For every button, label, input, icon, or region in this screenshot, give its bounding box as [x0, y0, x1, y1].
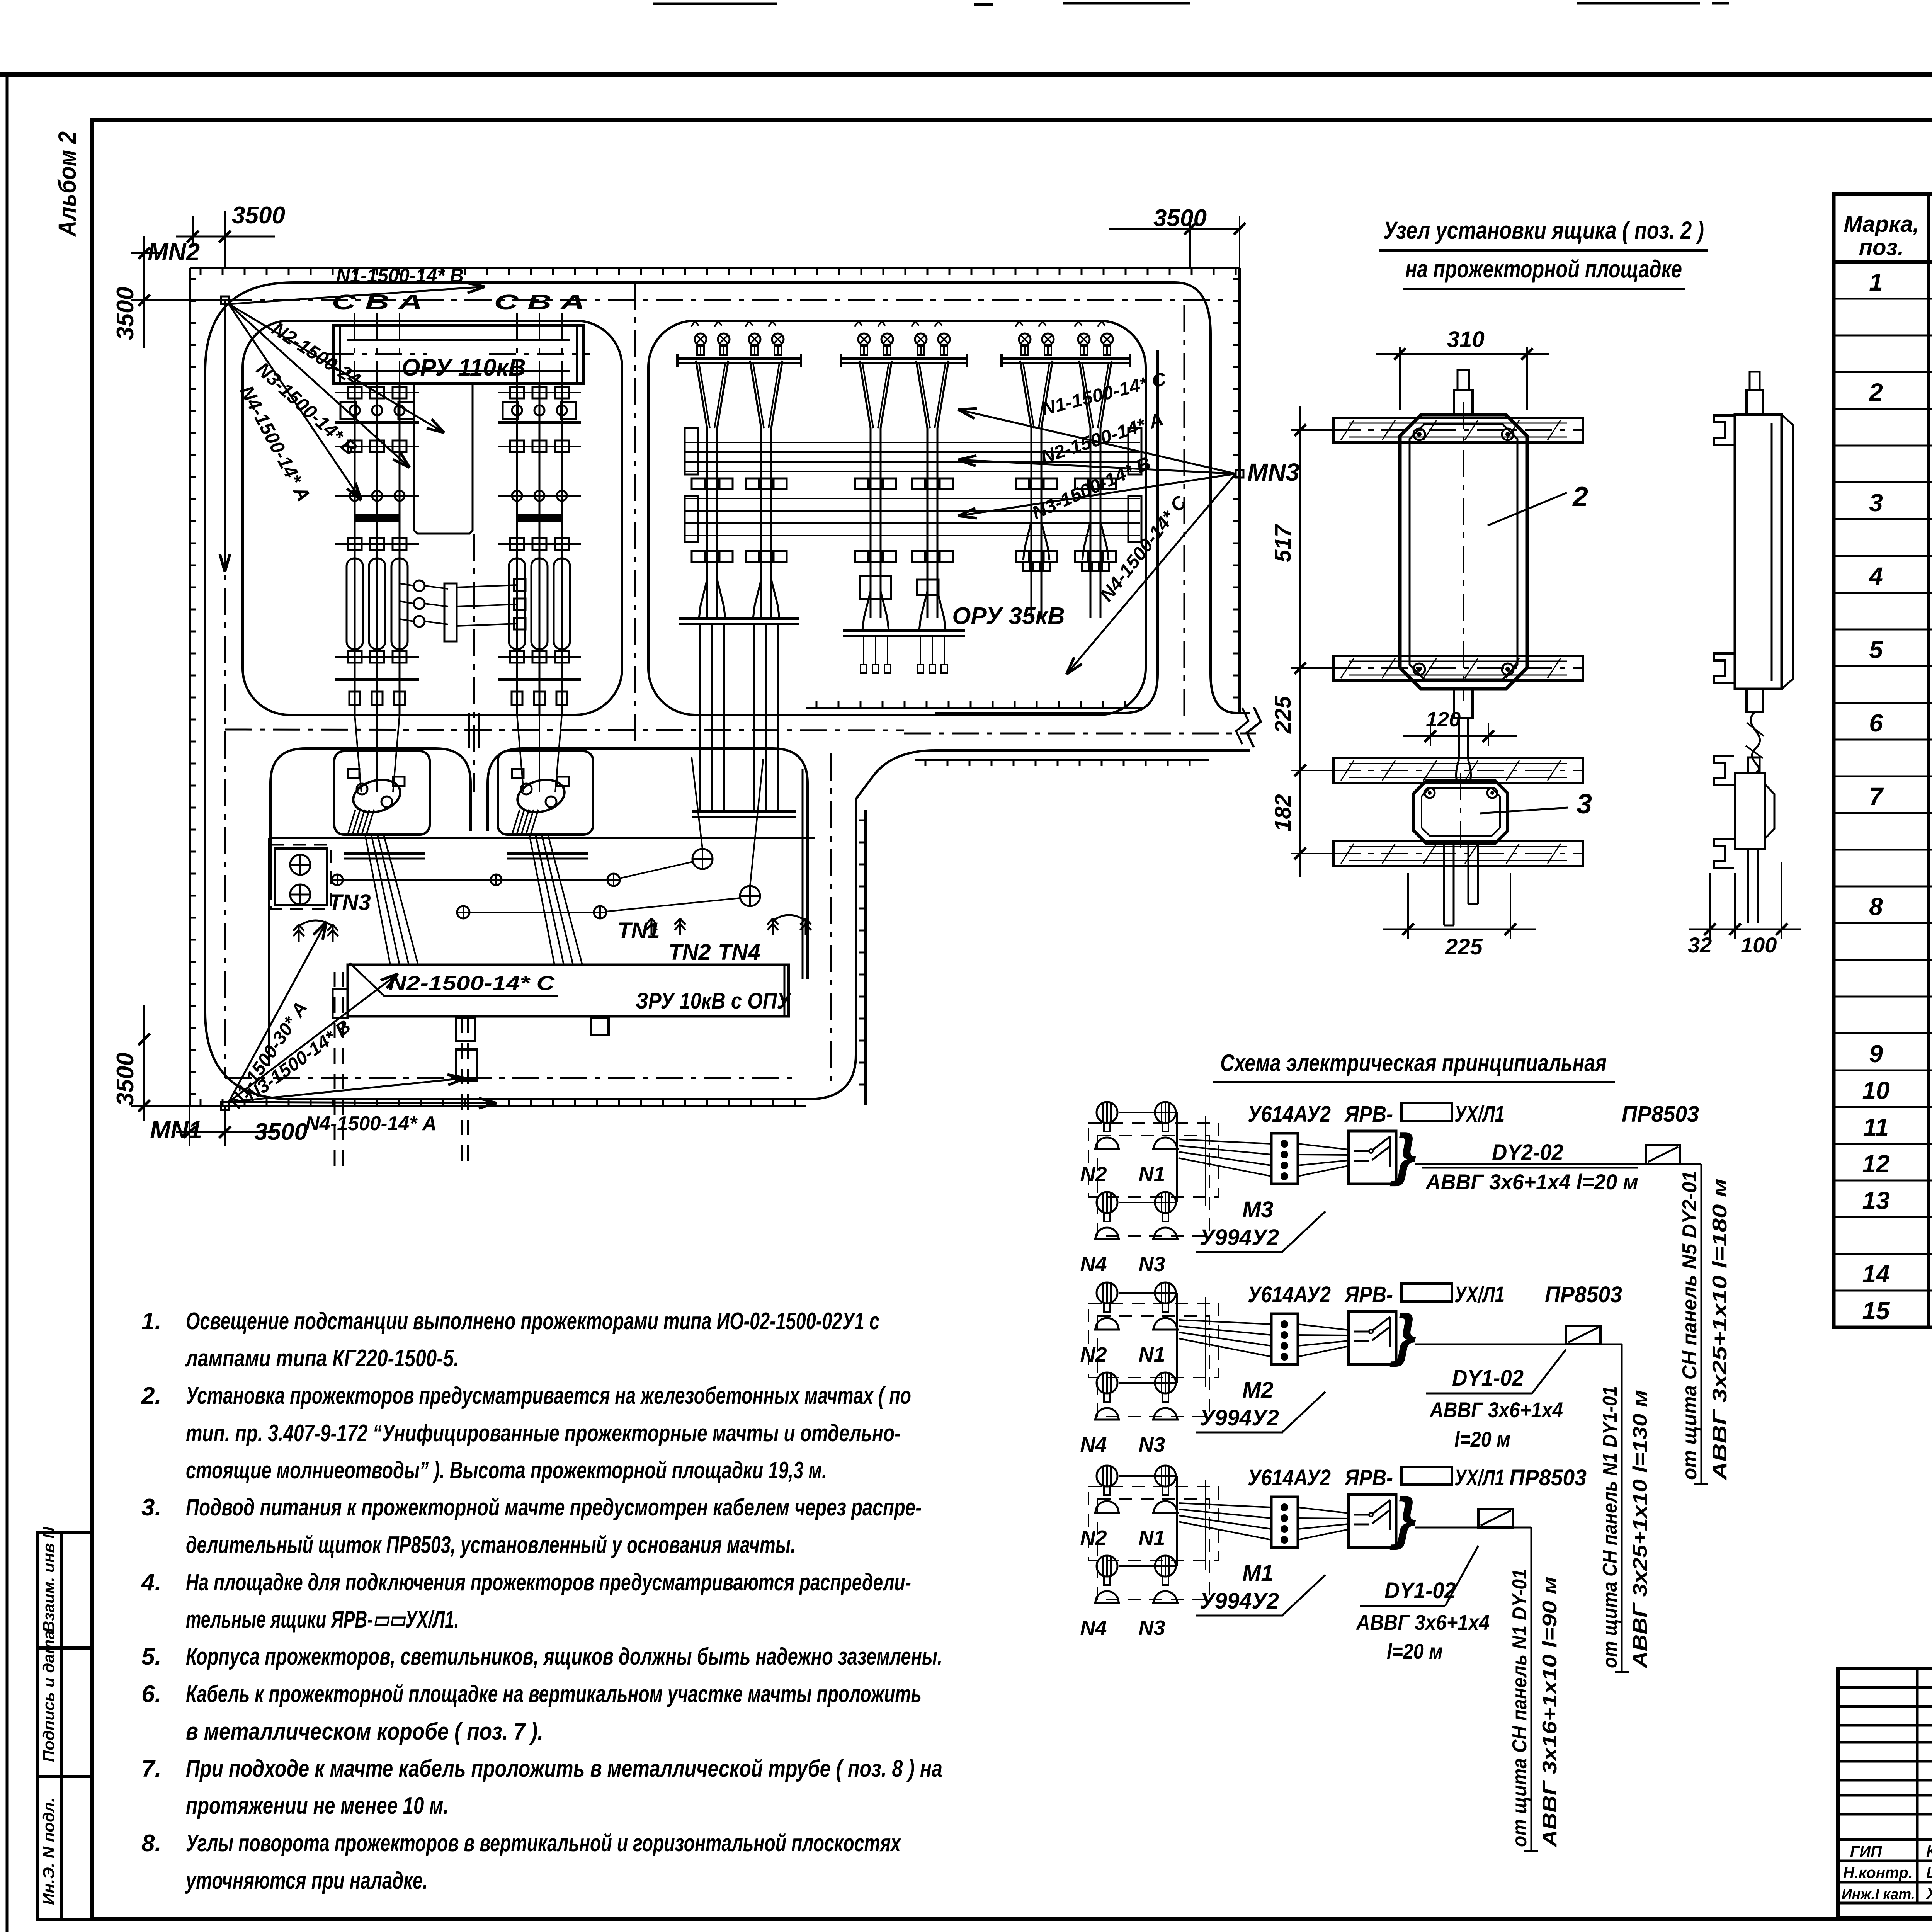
svg-text:3500: 3500 — [112, 287, 139, 340]
svg-text:l=20 м: l=20 м — [1387, 1639, 1443, 1663]
svg-text:3500: 3500 — [1153, 205, 1207, 231]
svg-text:N3: N3 — [1138, 1616, 1165, 1639]
svg-text:4.: 4. — [141, 1569, 162, 1596]
svg-text:M3: M3 — [1242, 1197, 1274, 1222]
svg-text:5.: 5. — [141, 1643, 162, 1670]
svg-text:MN2: MN2 — [148, 238, 200, 266]
svg-text:10: 10 — [1862, 1077, 1889, 1104]
svg-text:N4-1500-14* А: N4-1500-14* А — [305, 1112, 437, 1135]
svg-text:32: 32 — [1688, 933, 1712, 957]
svg-text:N2: N2 — [1080, 1526, 1107, 1549]
svg-text:ЯРВ-: ЯРВ- — [1344, 1465, 1393, 1490]
svg-text:N4: N4 — [1080, 1616, 1107, 1639]
svg-text:АВВГ 3х6+1х4: АВВГ 3х6+1х4 — [1429, 1398, 1563, 1422]
svg-text:Кабель к прожекторной площадке: Кабель к прожекторной площадке на вертик… — [186, 1681, 922, 1708]
svg-text:АВВГ 3х6+1х4: АВВГ 3х6+1х4 — [1355, 1610, 1490, 1634]
svg-text:Марка,: Марка, — [1844, 212, 1919, 237]
svg-text:6: 6 — [1869, 709, 1883, 737]
svg-text:9: 9 — [1869, 1040, 1883, 1068]
svg-text:ПР8503: ПР8503 — [1622, 1102, 1699, 1127]
svg-text:TN4: TN4 — [718, 940, 760, 965]
svg-text:MN3: MN3 — [1247, 458, 1299, 486]
svg-text:225: 225 — [1445, 934, 1483, 959]
svg-text:ГИП: ГИП — [1850, 1843, 1882, 1860]
svg-text:8.: 8. — [141, 1830, 162, 1857]
svg-text:ОРУ 110кВ: ОРУ 110кВ — [401, 354, 526, 381]
svg-text:от щита СН панель N1 DY-01: от щита СН панель N1 DY-01 — [1509, 1569, 1531, 1847]
svg-text:Взаим. инв N: Взаим. инв N — [39, 1526, 58, 1633]
svg-text:стоящие молниеотводы” ). Высот: стоящие молниеотводы” ). Высота прожекто… — [186, 1457, 827, 1484]
svg-text:182: 182 — [1270, 794, 1296, 832]
svg-text:2: 2 — [1869, 378, 1883, 406]
svg-text:У614АУ2: У614АУ2 — [1248, 1282, 1331, 1307]
svg-text:7.: 7. — [141, 1755, 162, 1782]
svg-text:N1-1500-14* В: N1-1500-14* В — [336, 265, 464, 286]
svg-text:6.: 6. — [141, 1681, 162, 1708]
svg-text:АВВГ 3х25+1х10 l=180 м: АВВГ 3х25+1х10 l=180 м — [1709, 1179, 1731, 1481]
svg-text:УХ/Л1: УХ/Л1 — [1454, 1102, 1505, 1127]
svg-text:8: 8 — [1869, 893, 1883, 920]
svg-text:4: 4 — [1868, 562, 1883, 590]
svg-text:Калугина: Калугина — [1926, 1842, 1932, 1860]
svg-text:517: 517 — [1270, 524, 1296, 562]
svg-text:11: 11 — [1863, 1113, 1889, 1141]
svg-text:N1: N1 — [1138, 1343, 1165, 1366]
svg-text:5: 5 — [1869, 636, 1883, 663]
svg-text:На площадке для подключения пр: На площадке для подключения прожекторов … — [186, 1569, 911, 1596]
svg-text:делительный щиток ПР8503, уста: делительный щиток ПР8503, установленный … — [186, 1532, 796, 1558]
svg-text:ОРУ 35кВ: ОРУ 35кВ — [952, 603, 1065, 629]
svg-text:100: 100 — [1741, 933, 1777, 957]
svg-text:N1: N1 — [1138, 1163, 1165, 1186]
svg-text:ПР8503: ПР8503 — [1509, 1465, 1587, 1490]
svg-text:12: 12 — [1862, 1150, 1889, 1178]
svg-text:У994У2: У994У2 — [1200, 1405, 1279, 1430]
svg-text:тип. пр. 3.407-9-172 “Унифицир: тип. пр. 3.407-9-172 “Унифицированные пр… — [186, 1420, 901, 1447]
svg-text:ЯРВ-: ЯРВ- — [1344, 1102, 1393, 1127]
svg-text:Инж.I кат.: Инж.I кат. — [1842, 1886, 1915, 1903]
svg-text:на прожекторной площадке: на прожекторной площадке — [1405, 255, 1682, 283]
svg-text:У994У2: У994У2 — [1200, 1225, 1279, 1250]
svg-text:При подходе к мачте кабель про: При подходе к мачте кабель проложить в м… — [186, 1755, 942, 1782]
svg-text:3: 3 — [1577, 789, 1592, 820]
svg-text:3500: 3500 — [232, 202, 285, 229]
svg-text:У994У2: У994У2 — [1200, 1588, 1279, 1614]
svg-text:Освещение подстанции выполнено: Освещение подстанции выполнено прожектор… — [186, 1308, 879, 1335]
svg-text:в металлическом коробе ( поз.: в металлическом коробе ( поз. 7 ). — [186, 1718, 543, 1745]
svg-text:M1: M1 — [1242, 1561, 1274, 1586]
svg-text:DY1-02: DY1-02 — [1452, 1366, 1524, 1391]
svg-text:N2: N2 — [1080, 1343, 1107, 1366]
svg-text:TN3: TN3 — [328, 890, 371, 915]
svg-text:ПР8503: ПР8503 — [1545, 1282, 1622, 1307]
svg-text:N4: N4 — [1080, 1433, 1107, 1456]
svg-text:поз.: поз. — [1859, 235, 1904, 260]
svg-text:С В А: С В А — [332, 291, 423, 314]
svg-text:1: 1 — [1869, 268, 1883, 296]
svg-text:N3: N3 — [1138, 1433, 1165, 1456]
svg-text:3.: 3. — [141, 1494, 162, 1521]
svg-text:У614АУ2: У614АУ2 — [1248, 1102, 1331, 1127]
svg-text:лампами типа КГ220-1500-5.: лампами типа КГ220-1500-5. — [185, 1345, 459, 1372]
svg-text:УХ/Л1: УХ/Л1 — [1454, 1465, 1505, 1490]
svg-text:от щита СН панель N5 DY2-01: от щита СН панель N5 DY2-01 — [1679, 1171, 1701, 1480]
svg-text:тельные ящики ЯРВ-▭▭УХ/Л1.: тельные ящики ЯРВ-▭▭УХ/Л1. — [186, 1606, 459, 1633]
svg-text:У614АУ2: У614АУ2 — [1248, 1465, 1331, 1490]
svg-text:Подпись и дата: Подпись и дата — [39, 1631, 58, 1762]
svg-text:Корпуса прожекторов, светильни: Корпуса прожекторов, светильников, ящико… — [186, 1643, 942, 1670]
svg-text:TN2: TN2 — [668, 940, 711, 965]
svg-text:13: 13 — [1862, 1187, 1889, 1214]
svg-text:N4: N4 — [1080, 1253, 1107, 1276]
svg-text:MN1: MN1 — [150, 1116, 202, 1144]
svg-text:310: 310 — [1447, 327, 1485, 352]
svg-text:уточняются при наладке.: уточняются при наладке. — [185, 1867, 428, 1894]
svg-text:1.: 1. — [141, 1308, 162, 1335]
svg-text:Альбом 2: Альбом 2 — [53, 131, 81, 237]
svg-text:TN1: TN1 — [617, 918, 660, 943]
svg-text:ЗРУ 10кВ с ОПУ: ЗРУ 10кВ с ОПУ — [636, 988, 791, 1014]
svg-text:АВВГ 3х16+1х10 l=90 м: АВВГ 3х16+1х10 l=90 м — [1539, 1577, 1561, 1848]
svg-text:Схема электрическая принципиал: Схема электрическая принципиальная — [1220, 1050, 1607, 1077]
svg-text:ЯРВ-: ЯРВ- — [1344, 1282, 1393, 1307]
svg-text:N2-1500-14* С: N2-1500-14* С — [388, 972, 555, 995]
svg-text:2: 2 — [1572, 481, 1588, 512]
svg-text:14: 14 — [1862, 1260, 1889, 1288]
svg-text:15: 15 — [1862, 1297, 1890, 1325]
svg-text:M2: M2 — [1242, 1378, 1274, 1403]
svg-text:2.: 2. — [141, 1383, 162, 1409]
svg-text:DY1-02: DY1-02 — [1384, 1578, 1456, 1603]
svg-text:АВВГ 3х6+1х4 l=20 м: АВВГ 3х6+1х4 l=20 м — [1425, 1170, 1638, 1194]
svg-text:Узел установки ящика ( поз. 2: Узел установки ящика ( поз. 2 ) — [1383, 216, 1704, 244]
svg-text:N1: N1 — [1138, 1526, 1165, 1549]
svg-text:Ин.Э. N подл.: Ин.Э. N подл. — [39, 1798, 58, 1905]
svg-text:7: 7 — [1869, 782, 1884, 810]
svg-text:N2: N2 — [1080, 1163, 1107, 1186]
svg-text:протяжении не менее 10 м.: протяжении не менее 10 м. — [186, 1793, 449, 1819]
svg-text:3: 3 — [1869, 489, 1883, 517]
svg-text:Шленова: Шленова — [1926, 1863, 1932, 1881]
svg-text:от щита СН панель N1 DY1-01: от щита СН панель N1 DY1-01 — [1599, 1386, 1621, 1668]
svg-text:3500: 3500 — [112, 1053, 139, 1106]
svg-text:АВВГ 3х25+1х10 l=130 м: АВВГ 3х25+1х10 l=130 м — [1629, 1390, 1651, 1669]
svg-text:120: 120 — [1426, 708, 1461, 731]
svg-text:Подвод питания к прожекторной: Подвод питания к прожекторной мачте пред… — [186, 1494, 922, 1521]
svg-text:l=20 м: l=20 м — [1454, 1427, 1510, 1451]
svg-text:УХ/Л1: УХ/Л1 — [1454, 1282, 1505, 1307]
svg-text:Хействер: Хействер — [1925, 1884, 1932, 1903]
svg-text:С В А: С В А — [494, 291, 585, 314]
svg-text:Н.контр.: Н.контр. — [1843, 1864, 1913, 1881]
svg-text:225: 225 — [1270, 696, 1296, 734]
svg-text:Углы поворота прожекторов в ве: Углы поворота прожекторов в вертикальной… — [186, 1830, 901, 1857]
svg-text:DY2-02: DY2-02 — [1492, 1140, 1563, 1165]
svg-text:Установка прожекторов предусма: Установка прожекторов предусматривается … — [186, 1383, 911, 1409]
svg-text:N3: N3 — [1138, 1253, 1165, 1276]
